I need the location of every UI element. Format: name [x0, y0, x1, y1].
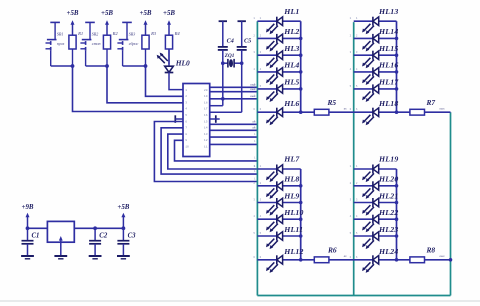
svg-text:вых: вых	[440, 106, 446, 110]
svg-text:пуск: пуск	[57, 41, 65, 46]
svg-text:HL20: HL20	[378, 175, 398, 184]
svg-text:HL4: HL4	[283, 61, 299, 70]
svg-text:+9В: +9В	[22, 204, 34, 211]
svg-text:+5В: +5В	[117, 204, 129, 211]
svg-text:+5В: +5В	[163, 10, 175, 17]
svg-text:HL21: HL21	[378, 191, 398, 200]
svg-text:HL0: HL0	[175, 59, 190, 68]
svg-text:HL14: HL14	[378, 27, 398, 36]
svg-text:17: 17	[204, 108, 208, 111]
svg-text:R2: R2	[112, 31, 119, 36]
svg-text:18: 18	[204, 101, 208, 104]
svg-text:13: 13	[204, 133, 208, 136]
svg-text:вх: вх	[253, 120, 256, 124]
svg-text:SB2: SB2	[92, 32, 98, 37]
svg-text:HL5: HL5	[283, 78, 299, 87]
svg-text:6: 6	[185, 120, 187, 123]
svg-text:R5: R5	[327, 98, 337, 107]
svg-text:HL12: HL12	[283, 247, 303, 256]
svg-text:сброс: сброс	[129, 41, 139, 46]
svg-text:R8: R8	[426, 245, 436, 254]
svg-text:R6: R6	[327, 245, 337, 254]
svg-text:HL7: HL7	[283, 155, 300, 164]
svg-text:8: 8	[185, 133, 187, 136]
svg-text:ZQ1: ZQ1	[224, 53, 235, 59]
svg-text:19: 19	[204, 95, 208, 98]
svg-text:R3: R3	[150, 31, 157, 36]
svg-text:вых: вых	[440, 254, 446, 258]
svg-text:HL24: HL24	[378, 247, 398, 256]
svg-text:стоп: стоп	[92, 41, 101, 46]
svg-text:15: 15	[204, 120, 208, 123]
svg-text:7: 7	[185, 127, 187, 130]
svg-text:R7: R7	[426, 98, 436, 107]
svg-text:20: 20	[204, 89, 208, 92]
svg-text:HL18: HL18	[378, 99, 398, 108]
svg-text:10: 10	[185, 146, 189, 149]
svg-text:HL9: HL9	[283, 191, 299, 200]
svg-text:11: 11	[204, 146, 208, 149]
svg-text:3: 3	[185, 101, 187, 104]
svg-text:HL15: HL15	[378, 44, 398, 53]
svg-text:HL22: HL22	[378, 208, 398, 217]
svg-text:C5: C5	[244, 37, 251, 44]
svg-text:C4: C4	[227, 37, 234, 44]
svg-text:вых: вых	[250, 94, 256, 98]
svg-text:C3: C3	[128, 232, 137, 239]
svg-text:+5В: +5В	[67, 10, 79, 17]
svg-text:C1: C1	[32, 232, 40, 239]
svg-text:HL13: HL13	[378, 7, 398, 16]
svg-text:HL19: HL19	[378, 155, 398, 164]
svg-text:вх: вх	[253, 126, 256, 130]
svg-text:16: 16	[204, 114, 208, 117]
svg-text:+5В: +5В	[101, 10, 113, 17]
svg-text:HL6: HL6	[283, 99, 299, 108]
svg-text:HL8: HL8	[283, 175, 299, 184]
svg-text:14: 14	[204, 127, 208, 130]
svg-text:HL2: HL2	[283, 27, 299, 36]
svg-text:9: 9	[185, 139, 187, 142]
svg-text:4: 4	[185, 108, 187, 111]
svg-text:R4: R4	[174, 31, 181, 36]
svg-text:+5В: +5В	[140, 10, 152, 17]
svg-text:C2: C2	[99, 232, 108, 239]
svg-text:5: 5	[185, 114, 187, 117]
svg-text:HL16: HL16	[378, 61, 398, 70]
svg-text:HL11: HL11	[283, 225, 303, 234]
svg-text:HL3: HL3	[283, 44, 299, 53]
svg-text:SB3: SB3	[129, 32, 135, 37]
svg-text:SB1: SB1	[57, 32, 63, 37]
svg-text:2: 2	[185, 95, 187, 98]
svg-text:HL1: HL1	[283, 7, 299, 16]
svg-text:HL17: HL17	[378, 78, 399, 87]
svg-text:HL23: HL23	[378, 225, 398, 234]
svg-text:R1: R1	[77, 31, 83, 36]
svg-text:HL10: HL10	[283, 208, 303, 217]
svg-text:12: 12	[204, 139, 208, 142]
svg-text:1: 1	[185, 89, 187, 92]
